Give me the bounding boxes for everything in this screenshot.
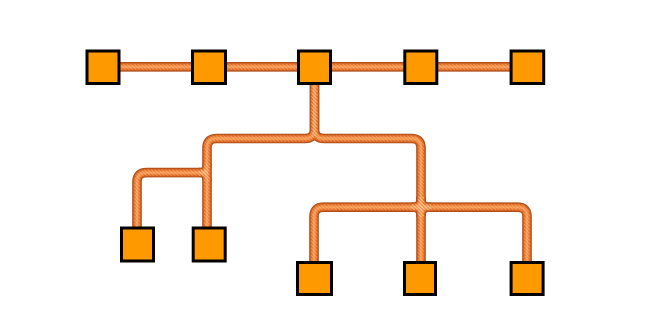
node bottom 1: [298, 263, 332, 295]
node top 3 (hub): [299, 51, 331, 84]
node mid-left 2: [193, 228, 225, 261]
node top 4: [405, 51, 437, 84]
node bottom 2: [405, 263, 436, 295]
node top 2: [193, 51, 226, 84]
node top 1: [87, 51, 119, 84]
wire network: layered tube strokes: [103, 67, 527, 278]
node mid-left 1: [122, 228, 154, 261]
node bottom 3: [511, 263, 543, 295]
squares: orange nodes with black border: [87, 51, 544, 295]
node top 5: [511, 51, 544, 84]
